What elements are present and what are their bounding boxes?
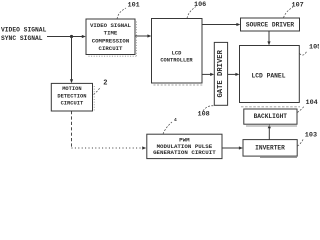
box 105 LCD panel — [240, 46, 301, 107]
svg-text:LCD: LCD — [172, 50, 182, 56]
label 105 — [300, 43, 320, 55]
svg-text:CIRCUIT: CIRCUIT — [61, 101, 84, 107]
svg-text:TIME: TIME — [104, 30, 118, 37]
wire inverter to backlight — [268, 127, 270, 140]
svg-text:LCD PANEL: LCD PANEL — [251, 73, 285, 80]
label 4 (PWM circuit leader) — [163, 117, 177, 134]
wire 106 to 107 — [202, 24, 238, 26]
svg-text:107: 107 — [292, 2, 304, 10]
box 2 motion detection circuit — [51, 83, 94, 112]
svg-text:104: 104 — [306, 99, 318, 107]
wire 106 to 108 — [202, 73, 212, 75]
wire junction down to motion detection — [71, 37, 73, 81]
box 108 gate driver — [214, 42, 227, 105]
junction dot — [70, 35, 73, 38]
wire 108 to 105 — [228, 73, 237, 75]
box 101 video signal time compression circuit — [86, 19, 137, 56]
wire PWM to inverter — [222, 147, 240, 149]
svg-text:INVERTER: INVERTER — [255, 145, 285, 152]
svg-text:108: 108 — [198, 111, 210, 119]
svg-text:BACKLIGHT: BACKLIGHT — [254, 113, 288, 120]
box 107 source driver — [241, 18, 300, 31]
box PWM modulation pulse generation circuit — [147, 134, 222, 158]
svg-text:103: 103 — [305, 132, 317, 140]
svg-text:VIDEO SIGNAL: VIDEO SIGNAL — [1, 27, 47, 34]
svg-text:2: 2 — [103, 79, 107, 87]
svg-text:SOURCE DRIVER: SOURCE DRIVER — [246, 21, 295, 28]
box 104 backlight — [244, 109, 297, 126]
dotted wire to PWM circuit — [72, 147, 142, 149]
svg-text:MOTION: MOTION — [62, 86, 81, 92]
svg-text:4: 4 — [174, 117, 177, 123]
box 106 LCD controller — [152, 19, 204, 86]
svg-text:CONTROLLER: CONTROLLER — [160, 58, 193, 64]
wire 101 to 106 — [135, 35, 149, 37]
svg-text:DETECTION: DETECTION — [57, 93, 86, 99]
label 103 — [297, 132, 317, 147]
svg-text:106: 106 — [194, 1, 206, 9]
label 106 — [187, 1, 206, 19]
label 2 — [94, 79, 108, 94]
box 103 inverter — [243, 140, 297, 158]
svg-text:VIDEO SIGNAL: VIDEO SIGNAL — [90, 22, 132, 29]
label 108 — [198, 106, 215, 119]
svg-text:GENERATION CIRCUIT: GENERATION CIRCUIT — [153, 149, 216, 156]
svg-text:GATE DRIVER: GATE DRIVER — [217, 49, 225, 97]
label 107 — [284, 2, 304, 18]
svg-text:105: 105 — [309, 43, 319, 51]
svg-text:SYNC SIGNAL: SYNC SIGNAL — [1, 35, 43, 42]
label 104 — [297, 99, 318, 112]
wire input to compression circuit — [47, 36, 83, 38]
svg-text:101: 101 — [128, 1, 140, 9]
label 101 — [117, 1, 140, 19]
svg-text:COMPRESSION: COMPRESSION — [92, 37, 130, 44]
wire 107 to 105 — [268, 31, 270, 43]
dashed wire motion detection down — [71, 111, 73, 148]
svg-text:CIRCUIT: CIRCUIT — [99, 45, 123, 52]
